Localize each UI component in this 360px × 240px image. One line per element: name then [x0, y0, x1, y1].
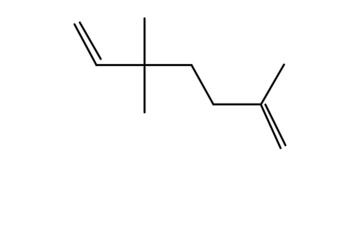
bond C4-C5 diagonal — [192, 65, 214, 104]
bond C6=C7 terminal methylene double bond, main line — [261, 104, 281, 148]
bond C1=C2 vinyl double bond, main line — [75, 24, 97, 65]
bond C6=C7 terminal methylene double bond, main line — [261, 104, 281, 148]
bond C6=C7 terminal methylene double bond, second line — [265, 105, 285, 146]
bond C4-C5 diagonal — [192, 65, 214, 104]
bond C6-CH3 methyl up-right — [261, 65, 284, 105]
bond C2-C3 horizontal — [96, 64, 144, 67]
bond C5-C6 horizontal — [213, 103, 261, 105]
bond C6=C7 terminal methylene double bond, second line — [265, 105, 285, 146]
mid halo layer: all bonds — [75, 18, 286, 148]
bond C3-C4 horizontal — [145, 64, 192, 66]
bond C3-CH3 upper methyl — [143, 18, 145, 65]
bond C1=C2 vinyl double bond, main line — [75, 24, 97, 65]
core layer: all bonds — [75, 18, 286, 148]
bond C2-C3 horizontal — [96, 64, 144, 66]
bond C6=C7 terminal methylene double bond, second line — [265, 105, 285, 146]
bond C3-CH3 lower methyl — [143, 65, 146, 112]
bond C1=C2 vinyl double bond, second line — [80, 23, 101, 59]
bond C6-CH3 methyl up-right — [261, 65, 284, 105]
bond C3-C4 horizontal — [145, 64, 192, 67]
bond C3-C4 horizontal — [145, 64, 192, 66]
bond C5-C6 horizontal — [213, 103, 261, 106]
bond C3-CH3 lower methyl — [144, 65, 146, 112]
soft halo layer: all bonds — [75, 18, 286, 148]
bond C1=C2 vinyl double bond, second line — [80, 23, 101, 59]
bond C5-C6 horizontal — [213, 103, 261, 105]
bond C3-CH3 lower methyl — [143, 65, 145, 112]
bond C2-C3 horizontal — [96, 64, 144, 66]
bond C1=C2 vinyl double bond, second line — [80, 23, 101, 59]
bond C3-CH3 upper methyl — [144, 18, 146, 65]
bond C3-CH3 upper methyl — [143, 18, 146, 65]
bond C1=C2 vinyl double bond, main line — [75, 24, 97, 65]
bond C4-C5 diagonal — [192, 65, 214, 104]
bond C6=C7 terminal methylene double bond, main line — [261, 104, 281, 148]
bond C6-CH3 methyl up-right — [261, 65, 284, 105]
